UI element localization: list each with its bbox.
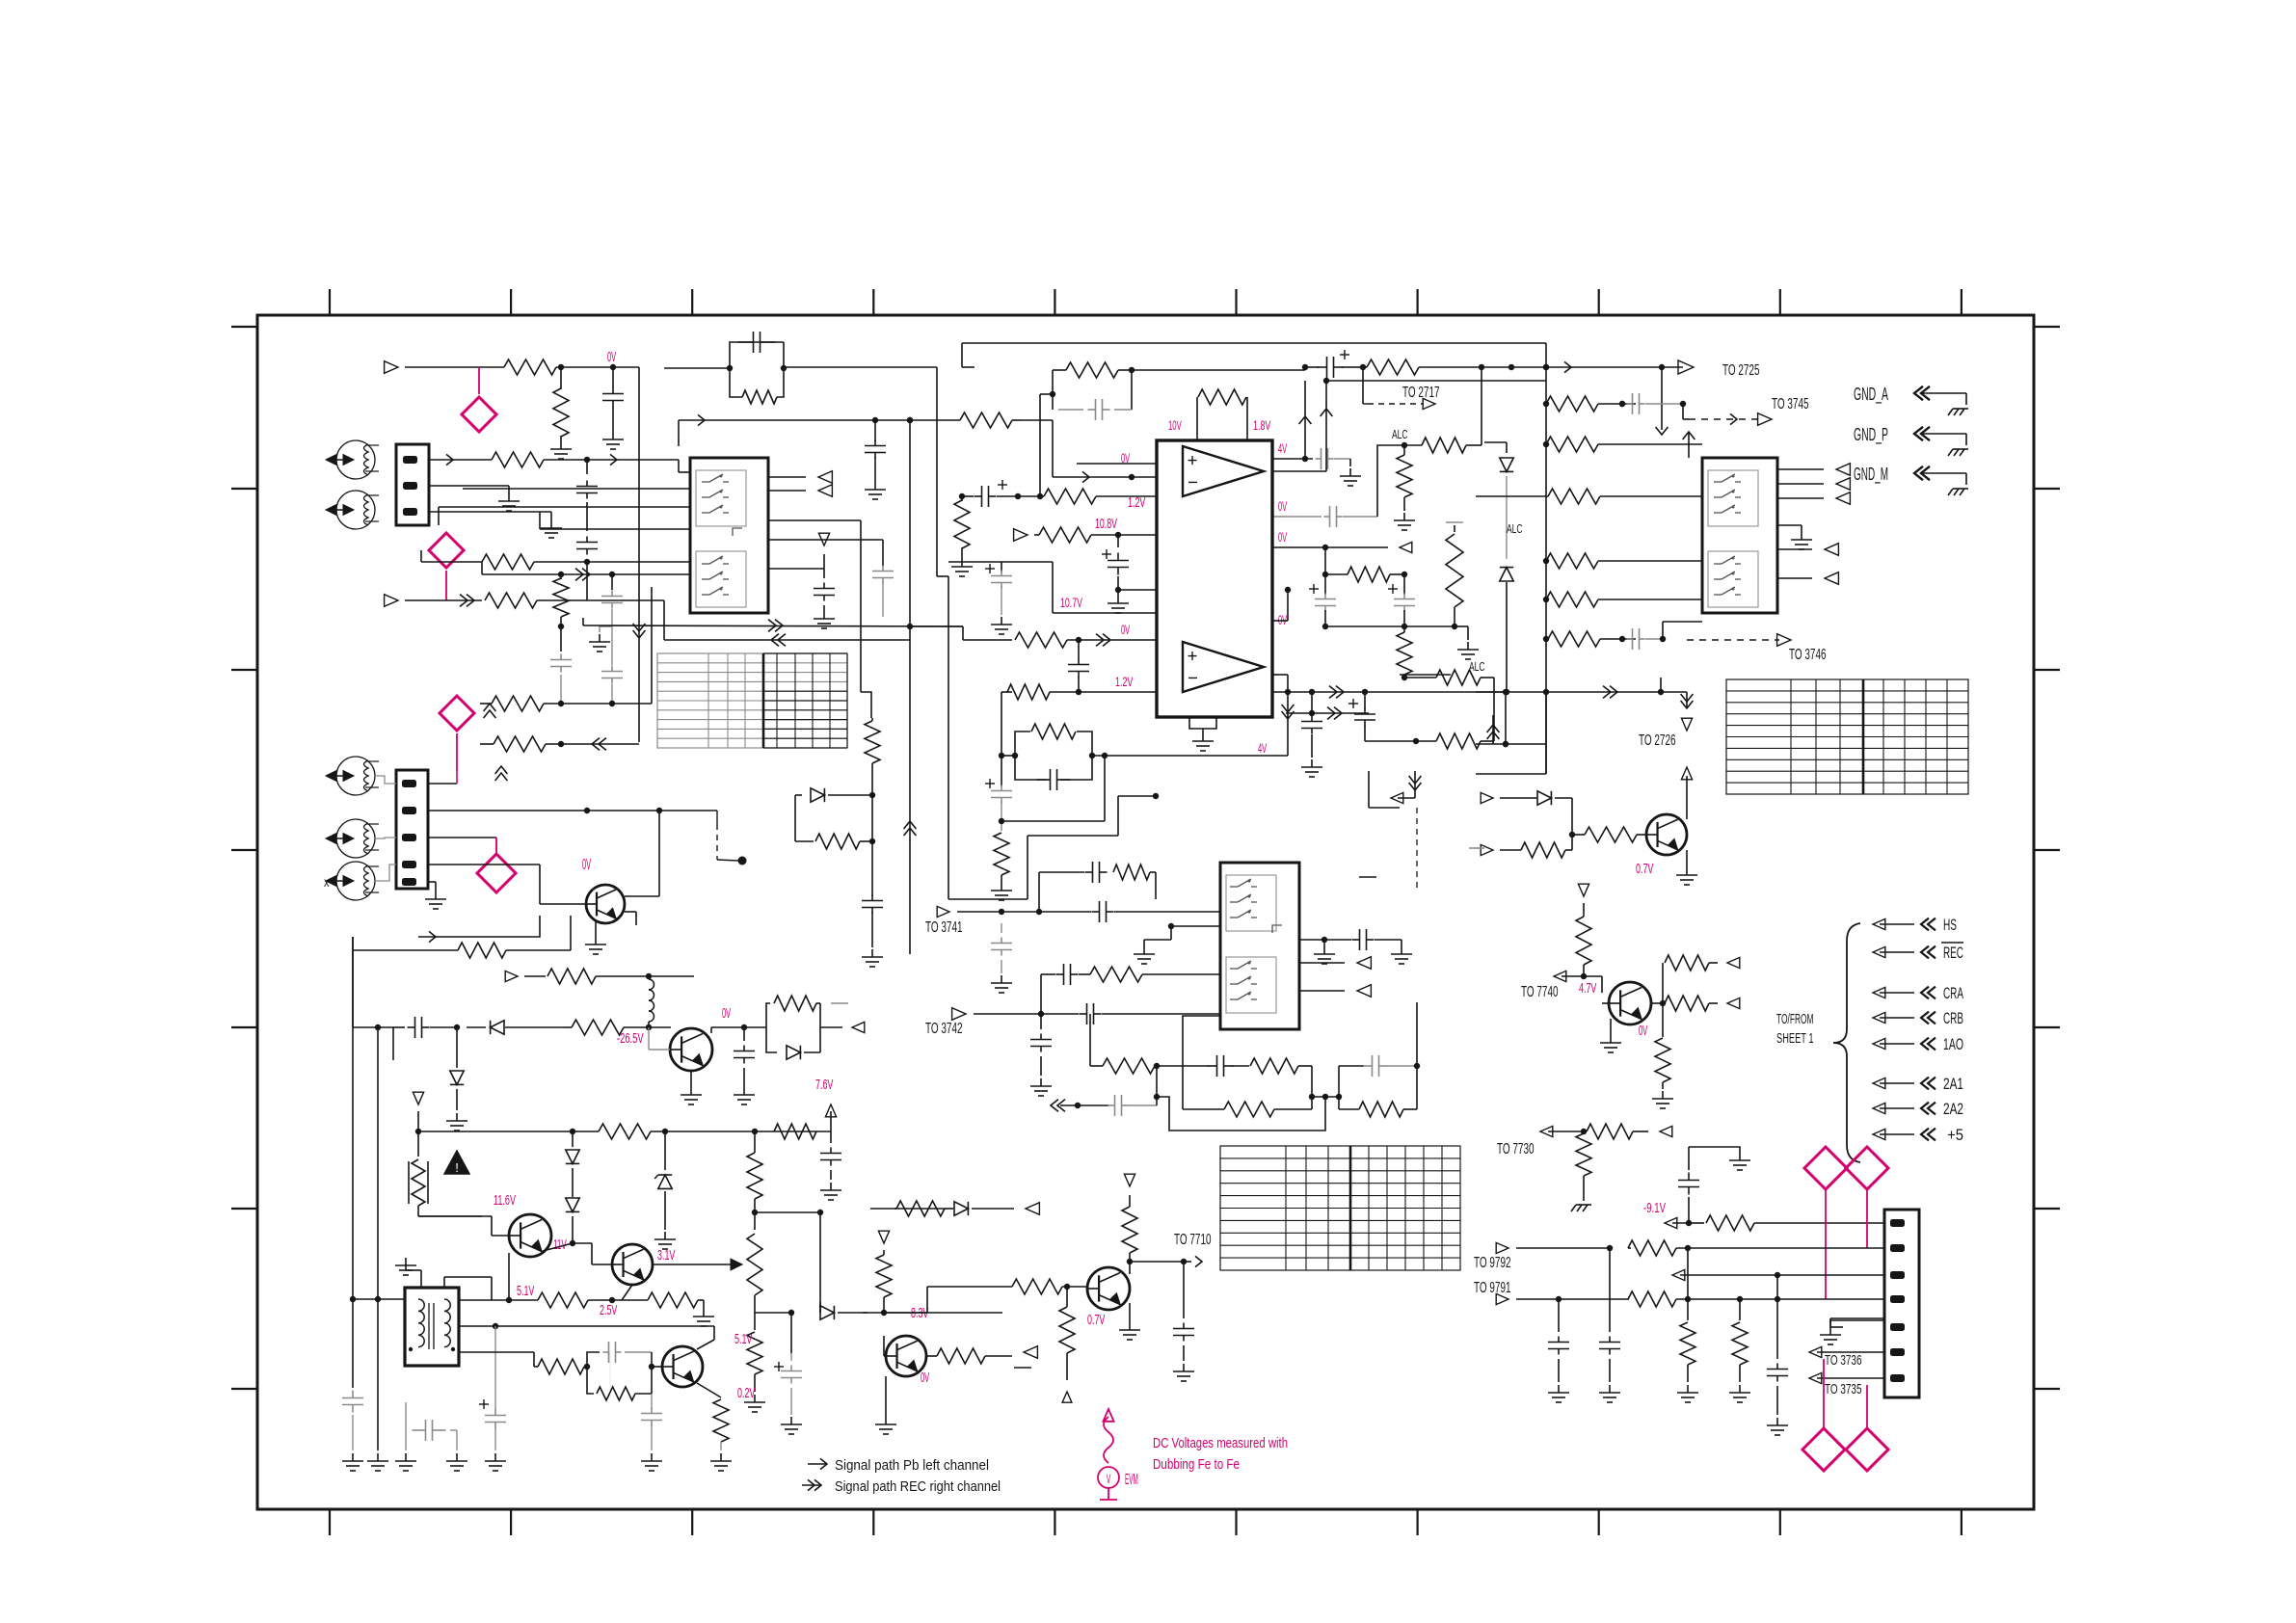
capacitor C4c: [611, 626, 613, 665]
EVM symbol: [1103, 1409, 1113, 1422]
ground J3: [1830, 1326, 1843, 1328]
diode Dv: [795, 794, 802, 796]
wire bus top: [962, 342, 1546, 344]
capacitor C20: [1627, 403, 1633, 405]
resistor R1: [504, 359, 556, 375]
wire: [543, 1243, 573, 1251]
op-amp A1: [1183, 446, 1264, 496]
res+diode pair: [766, 1003, 770, 1027]
capacitor C19: [1348, 703, 1358, 705]
svg-text:TO 7710: TO 7710: [1174, 1232, 1212, 1248]
wire: [1287, 675, 1289, 756]
bridge RC: [730, 342, 784, 368]
resistor R35: [1548, 631, 1600, 647]
resistor R33: [1546, 553, 1598, 569]
ground: [1001, 617, 1002, 625]
wire: [508, 1253, 510, 1300]
switch IC U1: [690, 458, 768, 613]
resistor R48: [509, 1299, 538, 1301]
wire: [870, 1208, 896, 1210]
table T3: [1220, 1146, 1460, 1270]
capacitor Cx: [882, 566, 884, 572]
svg-text:0V: 0V: [1278, 612, 1288, 627]
svg-text:CRB: CRB: [1943, 1009, 1963, 1027]
svg-text:TO 3742: TO 3742: [925, 1021, 963, 1037]
ground: [1662, 1091, 1664, 1099]
resistor R62: [884, 1312, 1002, 1314]
transistor Q7: [1087, 1267, 1130, 1310]
wire row: [540, 528, 690, 530]
svg-text:SHEET 1: SHEET 1: [1776, 1030, 1814, 1047]
wire: [768, 476, 806, 478]
svg-text:TO 2726: TO 2726: [1639, 732, 1676, 749]
wire dashed: [1416, 808, 1418, 889]
resistor R31: [1546, 437, 1598, 452]
ground: [703, 1309, 705, 1317]
test point diamond: [429, 533, 464, 568]
wire: [1130, 1261, 1184, 1263]
svg-text:0.7V: 0.7V: [1087, 1312, 1105, 1328]
svg-text:TO 2725: TO 2725: [1722, 362, 1760, 379]
resistor R59: [896, 1201, 945, 1216]
capacitor C39: [1688, 1173, 1690, 1181]
svg-text:-26.5V: -26.5V: [617, 1030, 644, 1047]
svg-text:Dubbing Fe to Fe: Dubbing Fe to Fe: [1153, 1456, 1240, 1473]
transistor Q5: [662, 1346, 703, 1387]
resistor R25: [1397, 632, 1412, 675]
svg-text:2A2: 2A2: [1943, 1100, 1963, 1118]
capacitor C8: [962, 495, 974, 497]
wire: [1777, 577, 1812, 579]
svg-text:GND_M: GND_M: [1854, 465, 1888, 485]
resistor R44: [774, 1124, 816, 1139]
diode D8: [566, 1198, 579, 1211]
svg-text:!: !: [455, 1160, 459, 1175]
wire: [429, 485, 509, 487]
resistor R43: [599, 1124, 651, 1139]
capacitor C22: [393, 1026, 405, 1028]
ground: [690, 1071, 692, 1087]
wire: [1118, 589, 1156, 591]
wire: [537, 599, 664, 601]
ground: [508, 493, 510, 501]
wire: [428, 837, 496, 838]
signal 2A1: [1873, 1078, 1885, 1088]
svg-text:2A1: 2A1: [1943, 1075, 1963, 1093]
wire: [648, 1027, 650, 1050]
wire: [429, 459, 492, 461]
bottom row gnds: [352, 1299, 354, 1388]
cap Cw: [871, 895, 873, 901]
res Rw: [795, 840, 814, 842]
capacitor C16: [1309, 588, 1319, 590]
ground: [874, 482, 876, 490]
record head RH1: [336, 757, 375, 795]
svg-text:10.8V: 10.8V: [1095, 516, 1117, 532]
ground: [1686, 850, 1688, 867]
resistor R60: [876, 1255, 892, 1297]
wire: [1272, 470, 1326, 472]
capacitor C38: [1183, 1262, 1185, 1318]
capacitor C33: [1080, 1013, 1087, 1015]
ground: [651, 1453, 653, 1461]
ground: [720, 1453, 722, 1461]
signal +5: [1873, 1129, 1885, 1139]
svg-text:TO 3735: TO 3735: [1825, 1381, 1862, 1397]
capacitor C11: [1078, 640, 1080, 659]
wire: [1829, 1318, 1831, 1327]
svg-text:0V: 0V: [921, 1370, 929, 1386]
wire: [1659, 364, 1665, 370]
wire: [429, 511, 551, 513]
wire: [1326, 380, 1546, 382]
table T1: [657, 653, 847, 748]
capacitor C2: [586, 460, 588, 474]
wire: [1686, 776, 1688, 819]
ground: [1129, 1303, 1131, 1322]
signal HS: [1873, 918, 1885, 929]
svg-text:ALC: ALC: [1469, 659, 1485, 674]
ground: [599, 634, 601, 642]
table T2: [1726, 679, 1968, 794]
wire: [768, 519, 861, 521]
svg-text:10V: 10V: [1168, 417, 1182, 433]
resistor R37: [1521, 842, 1565, 858]
resistor R19: [1353, 366, 1367, 368]
svg-text:ALC: ALC: [1507, 521, 1523, 536]
wire: [459, 1325, 714, 1327]
transistor Q4: [612, 1244, 653, 1285]
legend arrow2: [802, 1484, 821, 1486]
wire: [768, 539, 883, 541]
to3741 row: [937, 906, 949, 917]
ground: [1183, 1364, 1185, 1371]
ground: [1403, 513, 1405, 520]
resistor R50: [459, 1351, 534, 1353]
arrow to7740: [1554, 971, 1566, 981]
test diamond: [1846, 1428, 1888, 1471]
ground: [1401, 946, 1402, 954]
resistor R72: [1689, 1222, 1704, 1224]
magenta wire: [1823, 1359, 1825, 1428]
wire: [1777, 468, 1824, 470]
ground: [1040, 1078, 1042, 1086]
diode D4: [1537, 791, 1551, 805]
resistor R21: [1403, 445, 1405, 455]
transistor Q6: [886, 1336, 926, 1376]
capacitor C4: [560, 626, 562, 652]
capacitor C21: [1627, 638, 1633, 640]
rc block: [1015, 732, 1030, 756]
diode D7: [572, 1131, 574, 1147]
resistor R8: [480, 743, 494, 745]
ground: [1777, 524, 1802, 526]
resistor R56: [1183, 1108, 1224, 1110]
sheet brace: [1833, 923, 1860, 1162]
arrow 9791: [1496, 1293, 1508, 1304]
wire: [710, 1027, 712, 1033]
svg-text:4.7V: 4.7V: [1579, 980, 1596, 997]
ground: [494, 1453, 496, 1461]
legend arrow1: [808, 1463, 827, 1465]
ground: [1776, 1418, 1778, 1425]
up arrow: [1487, 725, 1500, 732]
resistor R41: [547, 969, 596, 984]
warning triangle: [444, 1151, 469, 1174]
transistor Q1: [586, 885, 625, 923]
test point diamond: [478, 367, 480, 394]
resistor R54: [1089, 1014, 1091, 1066]
signal wire: [583, 625, 963, 626]
svg-text:TO 3746: TO 3746: [1789, 647, 1827, 663]
vert wire: [909, 420, 911, 626]
transformer TR1: [405, 1288, 459, 1366]
resistor R10: [679, 419, 960, 421]
svg-text:1.2V: 1.2V: [1115, 674, 1134, 689]
wire left vert: [352, 937, 354, 1299]
power rail: [418, 1131, 573, 1132]
feedback block L: [1183, 1016, 1220, 1109]
arrow 3735: [1809, 1372, 1822, 1383]
capacitor C35: [1208, 1065, 1217, 1067]
svg-text:1.2V: 1.2V: [1128, 494, 1145, 511]
arrow: [1391, 792, 1403, 803]
svg-text:4V: 4V: [1278, 440, 1288, 456]
resistor R47: [747, 1332, 762, 1374]
arrow to3742: [952, 1008, 966, 1021]
svg-text:TO 3736: TO 3736: [1825, 1352, 1862, 1369]
wire 0V row: [1022, 419, 1053, 421]
resistor R68: [1665, 996, 1709, 1011]
resistor R14: [1015, 632, 1067, 648]
svg-text:0.7V: 0.7V: [1636, 861, 1653, 877]
signal 1AO: [1873, 1038, 1885, 1049]
svg-text:CRA: CRA: [1943, 984, 1963, 1002]
capacitor C40: [1558, 1299, 1560, 1332]
svg-text:DC Voltages measured with: DC Voltages measured with: [1153, 1435, 1288, 1451]
ground2: [1323, 940, 1325, 946]
capacitor C23: [743, 1027, 745, 1041]
node row: [1312, 1096, 1339, 1098]
resistor R26: [1446, 521, 1463, 523]
wire row: [439, 506, 690, 508]
resistor R58: [1339, 1108, 1359, 1110]
resistor R17: [999, 818, 1004, 824]
wire: [1777, 483, 1824, 485]
input tri: [505, 971, 518, 981]
wire: [418, 916, 540, 937]
wire: [1001, 820, 1105, 822]
svg-text:0V: 0V: [607, 349, 616, 365]
switch contacts: [1226, 875, 1276, 931]
rail arrows: [413, 1092, 423, 1104]
transistor Q9: [1609, 982, 1651, 1024]
ground: [595, 919, 597, 937]
svg-text:x: x: [324, 874, 330, 890]
ground: [823, 611, 825, 619]
wire: [1545, 692, 1547, 774]
rc row: [1039, 871, 1084, 873]
wire base: [883, 1336, 885, 1356]
signal CRA: [1873, 987, 1885, 998]
capacitor C6: [823, 569, 825, 578]
diode D3: [1500, 568, 1513, 581]
svg-text:EVM: EVM: [1125, 1472, 1138, 1488]
test point diamond: [477, 854, 516, 892]
capacitor C4b: [611, 574, 613, 590]
arrow: [1665, 1217, 1677, 1228]
resistor R63: [926, 1287, 928, 1313]
switch contacts: [1708, 470, 1758, 526]
wire: [443, 1277, 445, 1288]
svg-text:TO 3741: TO 3741: [925, 919, 963, 936]
wire: [1368, 771, 1370, 808]
bottom route: [1157, 1097, 1325, 1131]
record head RH2: [336, 819, 375, 858]
ground: [550, 520, 552, 528]
ground: [1609, 1385, 1611, 1393]
svg-text:5.1V: 5.1V: [517, 1283, 534, 1299]
svg-text:Signal path REC right channel: Signal path REC right channel: [835, 1478, 1001, 1495]
resistor R13: [1039, 527, 1091, 543]
switch IC U4: [1220, 863, 1299, 1029]
capacitor C13: [1340, 354, 1349, 356]
svg-text:0V: 0V: [722, 1005, 731, 1022]
wire: [428, 810, 717, 811]
capacitor C30: [1001, 923, 1002, 933]
wire: [377, 1299, 379, 1450]
ground: [612, 432, 614, 439]
ground: [420, 1270, 422, 1287]
capacitor C32: [1041, 973, 1055, 975]
diode bridge block: [766, 1002, 820, 1004]
wire: [768, 568, 824, 570]
ground: [1687, 1385, 1689, 1393]
resistor R20: [1422, 438, 1466, 453]
magenta wire: [1866, 1385, 1868, 1428]
wire: [1505, 692, 1507, 744]
small tri: [1062, 1392, 1072, 1402]
border frame: [257, 315, 2034, 1509]
ground: [1610, 1019, 1612, 1035]
svg-text:HS: HS: [1943, 916, 1957, 934]
resistor R73: [1628, 1240, 1676, 1256]
resistor R61: [937, 1348, 985, 1364]
resistor R76: [1739, 1299, 1741, 1320]
resistor R38: [1572, 834, 1585, 836]
diode D6: [456, 1027, 458, 1068]
resistor R71: [1576, 1133, 1591, 1176]
ground: [743, 1087, 745, 1095]
capacitor C10: [985, 568, 995, 570]
svg-text:-9.1V: -9.1V: [1643, 1200, 1666, 1216]
ground: [1001, 975, 1002, 983]
capacitor C42: [1776, 1275, 1778, 1359]
resistor R53: [1090, 967, 1142, 982]
frame tick marks: [329, 289, 331, 315]
wire dashed: [716, 811, 718, 824]
wire row: [463, 488, 690, 490]
svg-text:2.5V: 2.5V: [600, 1302, 617, 1318]
resistor R67: [1662, 963, 1664, 1003]
svg-text:5.1V: 5.1V: [734, 1331, 752, 1347]
svg-text:TO 3745: TO 3745: [1772, 396, 1809, 412]
resistor R52: [697, 1383, 721, 1397]
svg-text:1AO: 1AO: [1943, 1035, 1963, 1053]
input tri: [878, 1231, 889, 1243]
wire: [1170, 926, 1172, 940]
resistor R24: [1324, 547, 1326, 574]
svg-text:0V: 0V: [1639, 1023, 1647, 1039]
vert bus: [1545, 343, 1547, 774]
ground: [1311, 759, 1313, 767]
gray dash: [1359, 876, 1376, 878]
cap+gnd: [774, 1366, 784, 1368]
wire: [1777, 548, 1812, 550]
wire 4V out: [1272, 458, 1313, 460]
wire: [428, 881, 436, 883]
wire row650: [1325, 625, 1455, 627]
resistor R29: [1436, 733, 1481, 749]
wire: [556, 366, 639, 368]
signal CRB: [1873, 1012, 1885, 1023]
resistor R40: [458, 943, 506, 958]
svg-text:+5: +5: [1943, 1126, 1963, 1144]
wire: [638, 367, 640, 742]
gray dash: [1014, 1367, 1031, 1369]
signal REC: [1873, 946, 1885, 957]
arrow to7730: [1540, 1126, 1553, 1136]
chassis gnd: [1576, 1204, 1591, 1206]
playback head PH1: [336, 440, 375, 479]
node input: [385, 595, 398, 607]
zener D9: [664, 1131, 666, 1170]
wire: [622, 1285, 632, 1300]
switch contacts: [696, 470, 746, 526]
test point diamond: [440, 696, 474, 731]
gnd_p sym: [1914, 427, 1923, 440]
op-amp A2: [1183, 642, 1264, 692]
capacitor C12: [985, 783, 995, 785]
ground: [664, 1232, 666, 1239]
thermistor RT1: [417, 1131, 419, 1157]
RC pair: [1066, 362, 1118, 378]
resistor R55: [1250, 1058, 1298, 1074]
wire: [459, 1299, 509, 1301]
diode D5: [491, 1021, 504, 1034]
svg-text:1.8V: 1.8V: [1253, 417, 1271, 433]
resistor R69: [1662, 1003, 1664, 1037]
svg-text:0V: 0V: [582, 857, 591, 873]
wire: [863, 1312, 884, 1314]
svg-text:0V: 0V: [1278, 529, 1288, 545]
svg-text:TO 9792: TO 9792: [1474, 1255, 1511, 1271]
wire: [428, 783, 457, 785]
wire: [884, 1312, 927, 1314]
resistor R3: [492, 452, 544, 467]
wire: [1414, 771, 1416, 798]
resistor R15: [1001, 691, 1012, 693]
capacitor C34: [1040, 1014, 1042, 1029]
wire: [1001, 692, 1002, 756]
wire: [1156, 1066, 1158, 1097]
resistor R12: [961, 496, 963, 501]
wire to 2725: [1484, 366, 1683, 368]
input arrow: [1481, 792, 1493, 803]
wire vertical arrows: [484, 704, 496, 711]
signal 2A2: [1873, 1103, 1885, 1113]
ground: [1001, 883, 1002, 891]
